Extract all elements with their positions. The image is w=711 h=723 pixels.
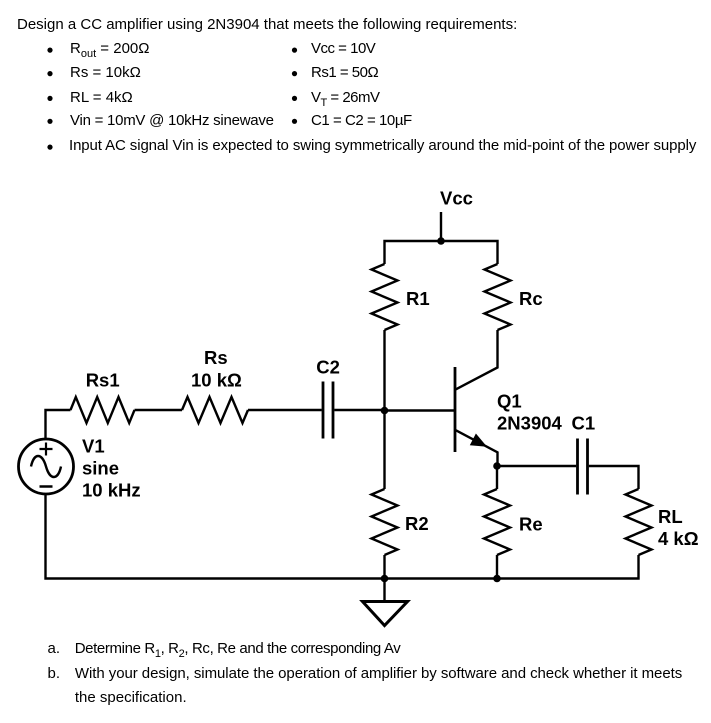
svg-text:C1: C1: [572, 412, 596, 433]
bullet row 1: [70, 41, 149, 62]
wire base: [385, 409, 455, 411]
resistor R1: [372, 264, 398, 330]
resistor RL: [626, 489, 652, 555]
svg-text:R2: R2: [405, 513, 429, 534]
wire C1 to RL: [589, 466, 639, 489]
svg-text:C2: C2: [316, 356, 340, 377]
wire Rs to C2: [248, 409, 322, 411]
title text: [17, 17, 517, 32]
svg-text:Rc: Rc: [519, 288, 543, 309]
svg-text:4 kΩ: 4 kΩ: [658, 528, 699, 549]
junction base node: [381, 407, 389, 415]
V1 plus sign: [40, 443, 53, 456]
svg-text:Rs1: Rs1: [86, 369, 120, 390]
capacitor C2: [323, 382, 333, 439]
bullet row 1 col 1: [47, 48, 52, 53]
svg-text:10 kHz: 10 kHz: [82, 480, 141, 501]
wire R1 bottom to base node: [383, 330, 385, 411]
transistor Q1 collector: [456, 330, 498, 389]
svg-text:10 kΩ: 10 kΩ: [191, 369, 242, 390]
capacitor C1: [578, 439, 588, 495]
svg-text:V1: V1: [82, 435, 105, 456]
ground: [383, 579, 385, 602]
wire Re top lead: [496, 466, 498, 489]
bullet row 2: [70, 65, 141, 80]
bullet row 5: [47, 145, 52, 150]
svg-text:Vcc: Vcc: [440, 188, 473, 209]
bottom rail wire: [46, 494, 639, 578]
wire V1 top to Rs1: [46, 410, 71, 439]
Vcc stem wire: [440, 212, 442, 241]
V1 sine glyph: [31, 456, 61, 477]
bullet row 3: [70, 90, 133, 105]
svg-text:Rs: Rs: [204, 347, 228, 368]
svg-text:2N3904: 2N3904: [497, 412, 563, 433]
resistor Rs1: [71, 397, 135, 423]
bullet row 2 col 1: [47, 71, 52, 76]
bullet row 3 col 2: [292, 96, 297, 101]
bullet row 4 col 2: [292, 119, 297, 124]
bullet row 4 col 1: [47, 119, 52, 124]
svg-text:RL: RL: [658, 506, 683, 527]
wire emitter node to C1: [497, 465, 576, 467]
svg-text:sine: sine: [82, 458, 119, 479]
wire Re bottom lead: [496, 555, 498, 579]
question b: [48, 666, 61, 681]
svg-text:Q1: Q1: [497, 390, 522, 411]
svg-text:Re: Re: [519, 514, 543, 535]
junction Vcc node: [437, 237, 445, 245]
transistor Q1 base bar: [454, 367, 457, 452]
transistor Q1 emitter: [456, 430, 498, 466]
bullet row 2 col 2: [292, 71, 297, 76]
resistor Rc: [485, 264, 511, 330]
junction R2 ground node: [381, 575, 389, 583]
wire R2 bottom lead: [383, 555, 385, 579]
resistor R2: [372, 489, 398, 555]
bullet row 5: [69, 138, 696, 153]
V1 minus sign: [40, 485, 53, 488]
bullet row 3 col 1: [47, 96, 52, 101]
resistor Re: [484, 489, 510, 555]
source V1: [19, 439, 74, 494]
top rail wire: [385, 241, 498, 264]
bullet row 1 col 2: [292, 48, 297, 53]
resistor Rs: [182, 397, 248, 423]
svg-text:R1: R1: [406, 288, 430, 309]
transistor Q1 emitter arrow: [470, 434, 487, 447]
wire base node to R2: [383, 411, 385, 490]
junction Re ground node: [493, 575, 501, 583]
wire C2 to base node: [334, 409, 384, 411]
junction emitter node: [493, 462, 501, 470]
wire Rs1 to Rs: [135, 409, 183, 411]
bullet row 4: [70, 113, 274, 128]
question a: [48, 641, 61, 656]
